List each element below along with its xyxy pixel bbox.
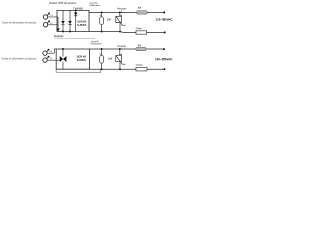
svg-text:BX: BX	[138, 7, 142, 10]
svg-text:moteur SCR de avance: moteur SCR de avance	[49, 1, 76, 5]
svg-text:d'absorption: d'absorption	[91, 42, 103, 45]
svg-text:Sonde de alimentation de thyri: Sonde de alimentation de thyristor	[1, 57, 36, 61]
svg-text:RHA081: RHA081	[54, 35, 64, 38]
svg-text:ZnR: ZnR	[107, 18, 112, 21]
svg-text:110~380VAC: 110~380VAC	[156, 18, 174, 22]
svg-text:100~380VAC: 100~380VAC	[155, 57, 173, 61]
svg-text:BX: BX	[138, 44, 142, 47]
svg-text:d'absorption: d'absorption	[89, 4, 101, 7]
svg-text:Sonde de alimentation de thyri: Sonde de alimentation de thyristor	[2, 21, 37, 25]
svg-text:G2: G2	[50, 50, 52, 53]
svg-text:ZnR: ZnR	[108, 57, 113, 60]
svg-text:Choke: Choke	[136, 27, 143, 30]
svg-text:K2: K2	[50, 57, 52, 60]
svg-text:Charge: Charge	[136, 64, 143, 67]
svg-text:G1: G1	[50, 14, 52, 17]
svg-text:K1: K1	[50, 22, 52, 25]
svg-text:TYA0B1: TYA0B1	[73, 7, 84, 10]
svg-text:S-500A: S-500A	[77, 24, 86, 27]
svg-text:S-500A: S-500A	[77, 59, 86, 62]
